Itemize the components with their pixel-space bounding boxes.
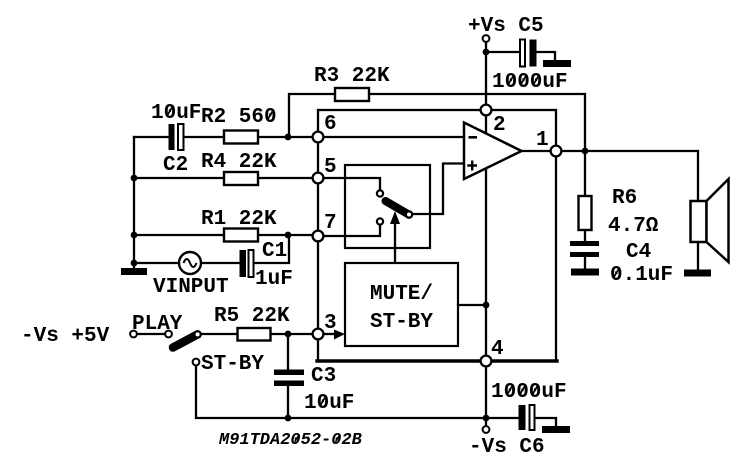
- VINPUT source: [179, 252, 201, 274]
- op-amp plus input mark: [467, 161, 477, 171]
- wire PLAY terminal link: [137, 333, 165, 335]
- switch PLAY lever: [173, 336, 196, 348]
- svg-text:1uF: 1uF: [255, 268, 293, 291]
- junction node R1/C1: [285, 232, 292, 239]
- pin 5: [313, 173, 324, 184]
- switch box: [345, 165, 430, 248]
- wire pin 7 to switch contact: [318, 224, 380, 236]
- svg-text:1000uF: 1000uF: [491, 381, 567, 404]
- junction node R2/R3: [285, 134, 292, 141]
- wire supply through IC down to pin 4 and -Vs terminal: [485, 168, 487, 426]
- wire MUTE box output to supply line: [458, 304, 486, 306]
- switch lever Q: [386, 201, 408, 214]
- switch lever end circle: [406, 211, 412, 217]
- svg-text:5: 5: [324, 156, 337, 179]
- svg-text:2: 2: [493, 114, 506, 137]
- svg-text:10uF: 10uF: [151, 102, 201, 125]
- svg-text:1: 1: [536, 129, 549, 152]
- junction node R5/C3: [285, 331, 292, 338]
- ground C4: [571, 269, 599, 276]
- svg-text:1000uF: 1000uF: [492, 71, 568, 94]
- junction node C3/-Vs rail: [285, 415, 292, 422]
- capacitor C2 plates: [169, 124, 184, 150]
- wire C2 R2 to pin 6: [134, 136, 318, 138]
- capacitor C3 plates: [274, 370, 304, 387]
- resistor R5: [238, 328, 271, 341]
- junction node R4 bus: [131, 175, 138, 182]
- resistor R1: [224, 229, 258, 242]
- wire speaker to ground: [697, 242, 699, 270]
- junction node MUTE/supply: [483, 302, 490, 309]
- wire VINPUT C1 branch: [134, 235, 289, 263]
- ground left input: [133, 263, 135, 268]
- wire R5 to pin 3: [202, 333, 318, 335]
- pin 6: [313, 132, 324, 143]
- resistor R4: [224, 172, 258, 185]
- pin 7: [313, 231, 324, 242]
- svg-text:M91TDA2052-02B: M91TDA2052-02B: [218, 431, 362, 450]
- svg-text:R6: R6: [612, 187, 637, 210]
- wire R3 feedback top: [289, 94, 585, 151]
- terminal PLAY right: [165, 331, 172, 338]
- capacitor C5 plates: [520, 40, 537, 67]
- op-amp U1 triangle: [464, 123, 522, 180]
- resistor R6: [579, 196, 592, 230]
- svg-text:ST-BY: ST-BY: [201, 353, 264, 376]
- svg-text:R5 22K: R5 22K: [214, 305, 290, 328]
- svg-text:4: 4: [491, 338, 504, 361]
- wire C5 branch: [486, 52, 555, 60]
- svg-text:0.1uF: 0.1uF: [610, 264, 673, 287]
- svg-text:-Vs +5V: -Vs +5V: [21, 325, 110, 348]
- wire output pin 1 to speaker: [521, 151, 698, 201]
- terminal -Vs: [483, 426, 490, 433]
- svg-text:ST-BY: ST-BY: [370, 311, 433, 334]
- svg-text:4.7Ω: 4.7Ω: [608, 215, 659, 238]
- wire C3 branch: [287, 334, 289, 418]
- pin 1: [551, 146, 562, 157]
- svg-text:6: 6: [324, 113, 337, 136]
- terminal +Vs: [483, 35, 490, 42]
- svg-text:-Vs C6: -Vs C6: [469, 436, 545, 459]
- pin 4: [481, 356, 492, 367]
- capacitor C1 plates: [240, 250, 254, 277]
- resistor R2: [224, 131, 258, 144]
- svg-text:C3: C3: [311, 365, 336, 388]
- svg-text:C1: C1: [262, 240, 287, 263]
- pin 3: [313, 329, 324, 340]
- MUTE/ST-BY block: [345, 263, 458, 346]
- wire pin 5 to switch contact: [318, 178, 380, 191]
- IC box bottom edge thick: [317, 359, 557, 362]
- capacitor C4 plates: [570, 241, 599, 257]
- wire left input bus: [133, 137, 135, 264]
- svg-text:+Vs C5: +Vs C5: [468, 15, 544, 38]
- svg-text:C2: C2: [163, 154, 188, 177]
- op-amp minus input mark: [469, 136, 478, 139]
- svg-text:MUTE/: MUTE/: [370, 283, 433, 306]
- ground C5: [543, 60, 571, 67]
- arrow pin 3 into MUTE block: [324, 333, 336, 335]
- svg-text:PLAY: PLAY: [132, 313, 183, 336]
- svg-text:VINPUT: VINPUT: [153, 276, 229, 299]
- switch PLAY lever circle: [194, 331, 200, 337]
- wire switch lever to non-inverting input: [412, 164, 464, 215]
- resistor R3: [335, 88, 369, 101]
- svg-text:R3 22K: R3 22K: [314, 65, 390, 88]
- svg-text:R1 22K: R1 22K: [201, 208, 277, 231]
- svg-text:R4 22K: R4 22K: [201, 151, 277, 174]
- terminal PLAY left: [130, 331, 137, 338]
- svg-text:10uF: 10uF: [304, 392, 354, 415]
- ground speaker: [684, 270, 711, 277]
- junction node VINPUT bus: [131, 260, 138, 267]
- pin 2: [481, 105, 492, 116]
- terminal ST-BY: [193, 359, 200, 366]
- wire R6 C4 branch: [584, 151, 586, 269]
- wire +Vs down to pin 2: [485, 42, 487, 134]
- IC box U1: [318, 110, 556, 361]
- arrow from MUTE to switch: [394, 222, 396, 263]
- speaker LS: [691, 179, 729, 262]
- switch contact upper: [377, 190, 383, 196]
- junction node R1 bus: [131, 232, 138, 239]
- wire R4 to pin 5: [134, 177, 318, 179]
- svg-text:3: 3: [324, 312, 337, 335]
- junction node pin4/-Vs rail: [483, 415, 490, 422]
- ground C6: [542, 426, 570, 433]
- switch contact lower: [377, 218, 383, 224]
- wire R1 to pin 7: [134, 234, 318, 236]
- svg-text:C4: C4: [626, 241, 651, 264]
- svg-text:7: 7: [324, 212, 337, 235]
- junction node +Vs/C5: [483, 49, 490, 56]
- capacitor C6 plates: [519, 405, 535, 430]
- wire ST-BY to -Vs rail: [196, 365, 556, 426]
- slashed-zero overlays: [167, 76, 619, 442]
- svg-text:R2 560: R2 560: [201, 106, 277, 129]
- wire pin 6 inverting input: [318, 136, 466, 138]
- junction node output/R3/R6: [582, 148, 589, 155]
